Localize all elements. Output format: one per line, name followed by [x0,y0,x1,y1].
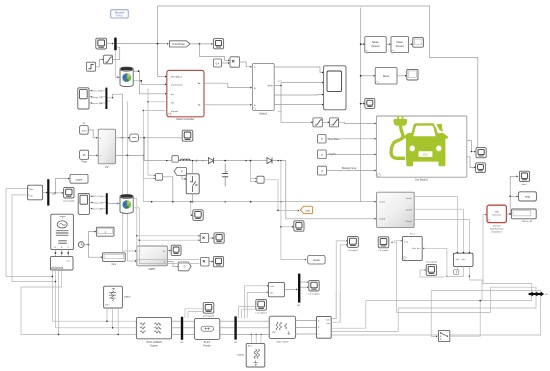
svg-text:Voltage (V)▸: Voltage (V)▸ [91,96,103,99]
svg-text:I-V scope10: I-V scope10 [426,262,438,264]
subsystem 21km Feeder [194,318,219,339]
three phase VI measurement right [453,253,473,266]
saturation block B [330,118,339,127]
scope IV scope16 [64,187,74,198]
saturation block A [313,118,322,127]
wire step to saturation [96,59,103,66]
svg-text:Iabc: Iabc [326,323,330,325]
coupling block three phase [50,257,73,270]
scope Scope6 [476,163,486,173]
three phase VI measurement B1 side [28,185,43,200]
svg-text:com: com [66,260,70,262]
wire left edge loop inner [12,195,56,282]
svg-text:THD: THD [525,196,530,199]
svg-text:P: P [181,169,183,173]
svg-text:A₋: A₋ [254,87,257,90]
svg-text:Feeder: Feeder [203,344,211,347]
svg-text:D: D [184,265,186,269]
wire small meas to B2 [284,288,296,290]
svg-text:A B C: A B C [105,304,110,307]
wire braking to car [326,170,375,172]
scope Iabc1 [519,171,529,181]
wire vabc pu in [423,247,447,249]
constant 0.4 [213,59,221,67]
svg-text:Motor1: Motor1 [260,112,268,115]
wire pv curr to mppt [127,155,135,261]
wire Imeas out [138,137,182,139]
display Display2 [413,38,424,48]
car headlight right [436,146,441,152]
battery block Battery1 [120,67,133,86]
voltage sense taps [250,161,252,182]
busbar horizontal right [529,293,544,295]
product block 2 [200,234,208,243]
wire mppt D out [167,262,178,267]
wire busbar V1 to DriveTorque [116,43,167,45]
car wheel right [439,156,446,166]
svg-text:THD: THD [494,211,499,213]
svg-text:Conn6: Conn6 [379,219,386,221]
subsystem Motor Controller [167,70,204,116]
subsystem Motor1 [252,63,274,110]
scope IV scope13 [256,299,267,310]
wire coupling fourth pin loop [21,270,62,335]
scope IV scope1 [348,236,359,247]
svg-text:A▸: A▸ [198,82,201,85]
svg-text:Iabc: Iabc [462,259,465,261]
scope Scope3 [213,39,223,49]
scope Scope10b [193,210,203,221]
wire controller A out to motor [204,83,251,87]
wire into mean1 [361,43,364,45]
transformer 25kV 600V [269,316,295,338]
wire into scope10b [190,202,193,216]
svg-text:⌂SOC (%)▸: ⌂SOC (%)▸ [92,195,103,198]
svg-text:30MW: 30MW [124,297,131,299]
svg-text:▸Command: ▸Command [171,83,183,86]
wires coupling down to grid lines [52,270,136,321]
svg-text:Iabc 1: Iabc 1 [522,184,529,186]
svg-text:Motor Controller: Motor Controller [176,118,194,121]
wires into small meas [262,285,267,287]
svg-text:Voltage (V)▸: Voltage (V)▸ [91,201,103,204]
svg-text:▸Vpwm: ▸Vpwm [171,110,178,113]
wire main feedback loop top [158,6,478,152]
constant 1000 irradiance [80,126,89,135]
svg-text:Iabc: Iabc [29,195,33,197]
wire mean1 to mean2 [386,43,389,45]
wires B0 to feeder [183,320,194,322]
wire temp to PV [89,154,97,156]
wire aspdtu to car [326,153,375,155]
wire meas c out [331,291,540,335]
wire dc rail top [148,160,208,162]
scope Scope12 [214,233,224,243]
wire into mean3 [361,75,374,77]
wires labels to busbar 2 [101,195,105,197]
wire into scope4 [361,103,364,105]
wire product to Motor1 [240,62,251,67]
svg-text:vboost: vboost [313,259,320,262]
wire link branch to scope8 [281,226,293,228]
wire clock out [84,244,88,246]
wire vabc to scope1 [335,291,336,293]
car roof and windshield frame [411,123,439,136]
scope IV scope6 [378,237,389,248]
wire battery m to controller [139,71,165,94]
svg-text:Tₒ: Tₒ [254,67,256,69]
wire motor out4 to scope [274,104,322,106]
wire iabc up [331,292,340,322]
subsystem Car Model1 [376,115,466,177]
car plug body [393,119,407,126]
scope Scope11 [213,256,223,266]
svg-text:RPM: RPM [268,85,273,87]
saturation block [104,55,113,64]
wire meas a out [331,283,531,328]
svg-text:7e-6 s.: 7e-6 s. [116,15,124,18]
wire 0.4 to product [221,62,228,64]
goto tag DriveTorque [169,41,190,47]
wire thd to thdva display [509,213,511,215]
svg-text:⌂SOC (%)▸: ⌂SOC (%)▸ [91,90,102,93]
constant Gear Ratio [318,135,326,143]
wire B2 to scope15 [300,281,307,283]
wire B1 to scope wire up [49,192,55,194]
wire vertical bus vinv to mean blocks [360,8,362,202]
wire scope2 to busbar [107,43,113,45]
svg-text:25 kV, 100MVA: 25 kV, 100MVA [146,341,162,344]
wire rpm branch down to saturation [281,86,312,123]
wire dc rail bottom [143,201,375,203]
wire gear ratio to car [326,138,375,140]
wire b3 sense up2 [247,292,262,318]
svg-text:Mean: Mean [372,40,379,44]
svg-text:I-V scope15: I-V scope15 [308,294,320,296]
busbar node V2 [105,88,107,109]
subsystem small measure block [268,282,284,296]
wire thd source up [483,215,486,284]
scope Scope2 [96,38,107,49]
display time [103,253,126,262]
busbar node V1 [114,38,117,51]
wire into pll freq [394,240,401,242]
wire battery out m [133,70,139,72]
wires system to B0 [172,320,181,322]
wires labels to busbar [101,90,105,92]
from tag P gate [174,167,186,175]
wire battery2 physical input [112,202,119,204]
capacitor C1 [222,164,228,187]
svg-text:G: G [83,122,85,125]
wire busbar V2 tap2 [107,100,110,102]
constant AspdTu [318,150,327,159]
goto tag vboost [308,255,325,264]
scope text block [70,174,88,183]
wire satB to car [339,122,375,123]
svg-text:THD Va_B1: THD Va_B1 [521,221,533,223]
wire controller B input [143,109,165,111]
wire mosfet source down [192,194,194,202]
wire battery out plus [133,81,165,85]
wire thd to display [510,195,517,197]
svg-text:Vabc: Vabc [326,319,330,321]
wire conn2 right [414,197,457,253]
busbar B3 [234,316,236,339]
wire branch to product [199,44,228,60]
subsystem Conn inverter [377,192,415,227]
wire DriveTorque to scope3 [190,43,212,45]
car mirror right [444,134,448,138]
wires B3 to transformer [237,320,269,322]
battery measurement display block [78,88,89,109]
car body [406,133,446,162]
wire B0 to scope14 [185,309,202,318]
scope IV scope14 [203,303,214,314]
busbar B2 [298,274,300,303]
wire satA to satB [322,121,328,123]
car roof wedge right [437,124,443,132]
mean linear block 2 [391,37,409,53]
diode D2 [267,158,272,164]
wire diode2 out [272,161,375,219]
product block 3 [201,257,209,266]
product block [230,57,240,67]
wire motor rpm out [274,67,322,72]
wire prod2 out [209,237,213,239]
wire diode1 to cap to diode2 [214,160,267,162]
svg-text:1000: 1000 [81,130,87,132]
busbar B0 [181,317,183,340]
wire to vboost tag [281,259,306,261]
svg-text:Conn2: Conn2 [406,198,413,200]
svg-text:Vabc (pu): Vabc (pu) [412,248,421,250]
svg-text:Current (A)▸: Current (A)▸ [91,208,103,211]
busbar B1 [47,179,49,205]
wires feeder to B3 [220,320,234,322]
wire PV out1 [116,137,129,139]
wire mean3 to display3 [397,75,405,77]
svg-text:PLL1: PLL1 [410,233,416,235]
battery measurement display block 2 [78,193,89,214]
svg-text:Braking Force: Braking Force [342,167,357,170]
switch block [438,330,449,341]
car license plate EV [419,151,433,157]
wire saturation out [112,47,119,59]
svg-text:Vabc: Vabc [455,259,459,261]
wire b3 sense up1 [244,286,262,318]
svg-text:A B C: A B C [248,345,253,348]
wire busbar V2 tap [107,94,122,137]
wire bottom pins route [445,273,463,277]
wire B3 to scope13 [239,306,255,318]
svg-text:▸FeedBack: ▸FeedBack [171,76,183,79]
display THD [519,192,537,201]
svg-text:scope: scope [76,178,83,181]
wire branch to product3 a [137,236,200,260]
svg-text:PV: PV [105,166,109,169]
diode D1 [208,158,213,164]
wire P to mosfet gate [182,175,185,179]
svg-text:Vabc: Vabc [29,189,33,191]
svg-text:Iabc: Iabc [270,293,274,295]
car model help icon [377,173,380,177]
wire branch to product3 b [139,240,199,263]
wire battery2 out1 [133,199,199,236]
svg-text:(linear): (linear) [396,44,404,48]
mean block 3 [375,68,397,84]
wire conn4 right [414,220,469,253]
scope Scope1 big [324,66,346,110]
svg-text:DriveTorque: DriveTorque [172,43,185,46]
scope Scope8 [294,221,304,231]
svg-text:MPPT: MPPT [149,268,156,271]
wire left edge loop outer [6,189,52,277]
car wheel left [406,156,413,166]
svg-text:100kW: 100kW [237,354,245,356]
wire mean2 to display1 [409,43,412,45]
scope Scope4 small [365,98,375,108]
from tag Link orange [300,206,312,213]
svg-text:21 km: 21 km [204,342,210,344]
wire clock to display 1 [88,232,95,245]
wire conn3 right [414,209,463,252]
clock block [78,242,84,248]
svg-text:(discrete): (discrete) [493,214,502,217]
display Display3 [407,69,418,80]
subsystem 25kV 100MVA System [136,317,171,338]
car windshield white [413,126,435,137]
car plug prongs [397,115,399,119]
wires into sum [148,174,154,176]
svg-text:Temp: Temp [81,162,87,164]
battery block Battery2 [120,195,133,214]
wire busbar V3 to battery2 [108,202,112,204]
svg-text:0.4: 0.4 [216,61,220,65]
subsystem PLL1 [402,236,422,260]
wire switch out [450,301,480,337]
svg-text:Current (A)▸: Current (A)▸ [91,102,103,105]
mosfet switch block [186,174,199,194]
scope IV scope10 [426,265,436,276]
gate driver small block [257,176,264,183]
sum block small [156,174,163,181]
svg-text:Mean: Mean [397,40,404,44]
wire B1 to IV scope16 [55,192,62,194]
display sim speed [96,227,114,236]
pins measurement right bottom [456,266,458,272]
wires taps to 100kW load [250,334,252,343]
wire G to PV [88,130,97,138]
svg-text:25kV / 600V: 25kV / 600V [276,342,288,344]
measure block I [130,134,139,141]
wire mppt Po to scope9 [167,250,170,252]
inductor L1 [179,159,191,161]
svg-text:Conn4: Conn4 [406,221,413,223]
scope Scope7 [182,130,193,141]
wire meas to B1 [43,192,47,194]
three phase VI measurement bottom [316,317,331,339]
wire controller B out to motor [204,104,251,106]
wire sum out down to rail [163,177,173,202]
wire car out2 to scope6 [467,157,475,168]
car charge cord [391,126,405,159]
wire rail tap down [280,161,282,260]
svg-text:I-V scope6: I-V scope6 [379,250,390,252]
constant 45 temp [80,150,89,159]
load 100kW block [246,343,265,367]
wire vabc up [331,292,336,319]
svg-text:Vabc: Vabc [270,286,274,288]
svg-text:B▸: B▸ [198,104,201,107]
wire controller m input [147,88,149,175]
wire meas b out [331,242,536,331]
svg-text:Discrete: Discrete [493,224,501,227]
scope Scope9 [171,245,181,255]
car white slit right [434,123,440,133]
wire car out to scope5 [471,151,474,153]
wire loop top into scope5 [475,151,478,153]
wire scope10 in [420,269,425,271]
wires source to coupling [54,250,56,257]
wire PV out2 [116,155,144,160]
wire thd out [506,176,517,214]
wire rail bottom left leg [142,161,144,202]
constant Braking Force [318,166,327,175]
car mirror left [403,134,407,138]
subsystem THD discrete [487,205,506,222]
svg-text:B₋: B₋ [254,105,257,107]
load 30MW block [104,286,123,308]
svg-text:Car Model1: Car Model1 [415,179,429,182]
scope IV scope15 [309,280,319,291]
subsystem MPPT [137,246,168,266]
wire car out1 [467,141,472,152]
svg-text:▸m: ▸m [171,93,174,96]
wire prod3 out to scope11 [209,261,212,263]
wire clock to time display [88,245,101,258]
current sensor block [172,156,178,162]
scope Scope5 [476,148,486,158]
mean linear block 1 [365,37,386,53]
wire battery2 out2 [133,208,199,240]
svg-text:Freq: Freq [404,241,408,243]
wire mean feed branch [361,43,365,45]
pins measurement right top [457,252,459,254]
step block [87,62,96,71]
svg-text:I-V scope14: I-V scope14 [203,316,215,318]
svg-text:System: System [150,344,158,347]
svg-text:Distortion1: Distortion1 [492,230,503,233]
svg-text:Conn3: Conn3 [406,209,413,211]
svg-text:rpm: rpm [278,80,282,83]
wire inductor to diode [190,160,207,162]
wire pv volt to mppt [122,137,135,251]
wire small block out to Link [264,180,298,211]
ground tap small [454,270,459,275]
svg-text:(linear): (linear) [371,44,379,48]
busbar node V3 [106,193,108,214]
svg-text:Total Harmonic: Total Harmonic [490,227,504,230]
svg-text:time: time [112,263,117,266]
wire to scope block [55,179,68,193]
wires transformer to measurement [296,320,316,322]
svg-text:Mean: Mean [383,74,390,78]
wire branch down to rail [144,138,148,161]
wire iabc to scope1b [340,245,346,322]
powergui Discrete block [111,10,128,18]
wire motor out3 to scope [274,94,322,96]
